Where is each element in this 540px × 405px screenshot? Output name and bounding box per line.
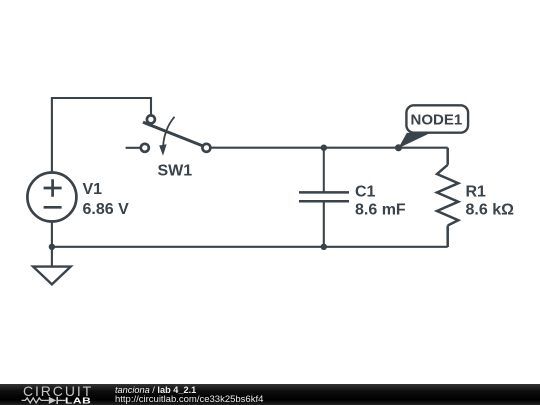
node junction dot at V1/ground: [49, 244, 55, 250]
svg-text:V1: V1: [83, 181, 103, 198]
wire V1 bottom to ground node: [51, 221, 53, 247]
footer CircuitLab logo wordmark: [23, 383, 93, 399]
capacitor C1: [299, 148, 349, 247]
resistor R1: [437, 148, 458, 247]
wire ground stem: [51, 247, 53, 267]
footer CircuitLab logo resistor-diode line: [22, 398, 66, 403]
svg-text:http://circuitlab.com/ce33k25b: http://circuitlab.com/ce33k25bs6kf4: [115, 394, 263, 405]
wire bottom rail: [52, 246, 448, 248]
svg-text:8.6 mF: 8.6 mF: [355, 201, 406, 218]
switch SW1 arm: [143, 122, 203, 146]
node NODE1 dot: [395, 144, 402, 151]
node junction dot cap bottom: [321, 244, 327, 250]
svg-text:C1: C1: [355, 183, 376, 200]
switch SW1 right terminal: [202, 144, 210, 152]
svg-text:SW1: SW1: [158, 163, 193, 180]
wire switch left stub: [126, 147, 141, 149]
switch SW1 left terminal: [141, 144, 149, 152]
ground: [33, 267, 71, 285]
voltage source V1: [27, 173, 76, 222]
svg-text:LAB: LAB: [65, 397, 91, 405]
svg-text:NODE1: NODE1: [411, 112, 463, 129]
svg-text:6.86 V: 6.86 V: [83, 201, 130, 218]
svg-text:8.6 kΩ: 8.6 kΩ: [466, 201, 515, 218]
switch SW1: [141, 115, 211, 151]
wire top-left from V1 to switch: [52, 98, 151, 173]
footer bar: [0, 384, 540, 405]
node NODE1 callout: [398, 105, 468, 148]
node junction dot cap top: [321, 145, 327, 151]
svg-text:R1: R1: [466, 183, 487, 200]
wire switch right to resistor top: [211, 147, 448, 149]
switch SW1 top terminal: [147, 115, 155, 123]
switch SW1 motion arrow: [163, 117, 175, 148]
